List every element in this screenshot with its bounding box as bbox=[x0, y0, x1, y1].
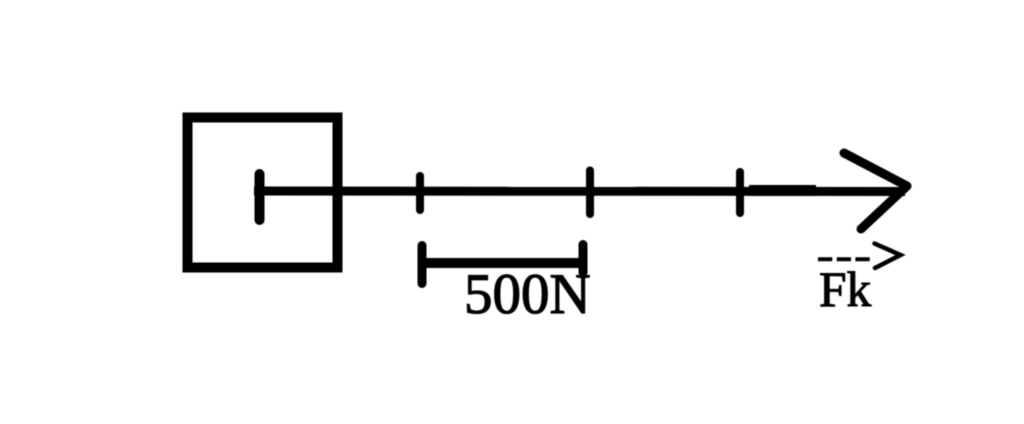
svg-text:Fk: Fk bbox=[819, 262, 872, 317]
svg-text:500N: 500N bbox=[464, 263, 591, 326]
